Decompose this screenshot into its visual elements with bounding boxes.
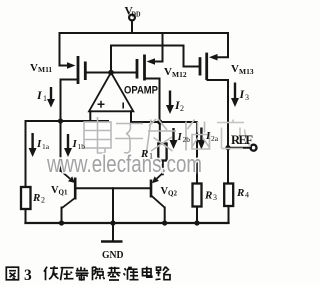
wire VM12 gate lead [111,72,136,74]
wire VDD stem [131,21,133,34]
wire VM11 drain [61,80,79,122]
svg-text:2: 2 [180,104,184,113]
wire REF terminal lead [228,147,251,149]
svg-text:1b: 1b [78,142,86,151]
current arrow I1 [47,87,55,108]
current arrow I2b [170,128,178,149]
wire opamp output to gate bus [111,46,199,73]
基 [108,267,121,280]
wire VM12 source drop [154,33,163,62]
电 [143,267,152,278]
wire VM12 drain [146,79,160,123]
svg-text:2b: 2b [183,135,191,144]
svg-text:M13: M13 [239,67,254,76]
junction rail VQ2 dot [162,220,167,225]
node A line [26,120,109,122]
junction REF dot [225,145,230,150]
图 [6,267,18,280]
wire base tap to ground [112,188,114,241]
junction rail R3 dot [194,220,199,225]
wire VM11 gate lead [87,72,112,74]
ground rail [26,222,229,224]
transistor VM12 [137,55,155,81]
svg-text:R: R [236,187,244,199]
svg-text:OPAMP: OPAMP [124,85,158,97]
op-amp plus sign [98,101,105,108]
current arrow I2 [166,91,174,115]
svg-text:GND: GND [102,249,124,261]
wire node A to R2 [25,121,27,187]
op-amp minus sign [122,103,124,109]
op-amp U1 triangle [89,73,133,112]
junction node A dot [58,118,63,123]
wire node B to R3 [196,122,198,184]
junction rail GND dot [110,220,115,225]
watermark big glyphs row [84,117,251,153]
resistor R3 [193,184,202,207]
svg-text:V: V [231,63,239,75]
caption figure 3 [6,266,170,284]
svg-text:1: 1 [43,94,47,103]
svg-text:V: V [164,66,172,78]
wire R3 to ground rail [196,207,198,224]
svg-text:DD: DD [132,10,141,19]
current arrow I1a [29,133,37,157]
svg-text:3: 3 [213,193,217,202]
wire node B to R1 [159,122,161,144]
transistor VM13 [200,53,218,80]
wire VM13 drain to REF [208,80,229,184]
ground symbol [101,240,123,243]
svg-text:2a: 2a [211,134,219,143]
current arrow I3 [231,83,239,108]
wire R2 to ground rail [25,209,27,223]
svg-text:REF: REF [231,133,253,147]
wire R1 to VQ2 emitter [162,161,164,175]
current arrow I2a [197,128,205,150]
svg-text:1: 1 [149,152,153,161]
junction rail VQ1 dot [59,220,64,225]
压 [61,268,74,281]
wire VM11 source drop [60,33,69,66]
resistor R1 [158,144,166,161]
wire bases line [77,187,151,189]
svg-text:Q2: Q2 [168,190,177,198]
current arrow I1b [64,134,72,157]
svg-text:1a: 1a [42,142,50,151]
wire VDD rail [60,32,229,34]
svg-text:M12: M12 [172,70,187,79]
svg-text:2: 2 [41,196,45,205]
wire VQ1 collector drop [61,208,63,224]
wire R4 to ground rail [228,206,230,223]
svg-text:V: V [30,62,38,74]
svg-text:R: R [204,190,212,202]
准 [124,267,139,280]
路 [156,267,171,280]
隙 [93,267,105,281]
svg-text:3: 3 [245,93,249,102]
transistor VQ1 [61,171,76,209]
svg-text:R: R [32,192,40,204]
resistor R2 [21,187,31,209]
resistor R4 [224,184,233,207]
svg-text:www.elecfans.com: www.elecfans.com [46,151,202,178]
REF terminal circle [251,145,257,151]
wire VM13 source drop [217,33,228,57]
wire node A to VQ1 emitter [60,121,62,171]
VDD terminal circle [129,15,135,21]
低 [44,266,59,280]
transistor VQ2 [151,173,165,208]
带 [76,267,89,281]
opamp input stub minus [130,111,132,122]
transistor VM11 [67,56,85,84]
wire VQ2 collector drop [164,208,166,224]
svg-text:M11: M11 [38,65,52,74]
opamp input stub plus [89,111,91,121]
node B line [131,121,197,123]
svg-text:Q1: Q1 [59,189,68,197]
svg-text:4: 4 [245,191,249,200]
svg-text:R: R [140,148,148,160]
junction opamp output dot [108,70,114,76]
junction node B dot [157,119,162,124]
svg-text:3: 3 [24,267,32,284]
